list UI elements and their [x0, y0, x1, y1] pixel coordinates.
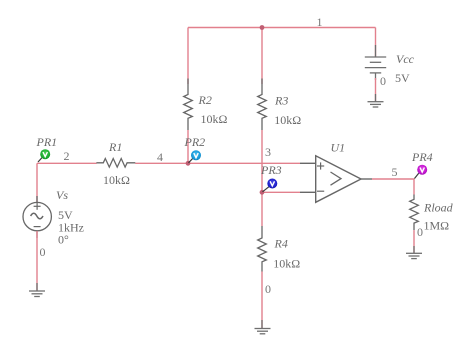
wire net 3 vertical: [261, 130, 263, 226]
svg-text:5V: 5V: [395, 71, 410, 85]
junction node 1 / R3: [260, 25, 265, 30]
op-amp gain chevron: [331, 172, 342, 185]
ground (under Rload): [406, 246, 422, 259]
ground (under R4): [255, 320, 271, 334]
dc source Vcc battery: [365, 45, 386, 80]
svg-text:Rload: Rload: [423, 201, 454, 215]
wire R2 branch lower: [187, 130, 189, 163]
op-amp plus marker: [317, 162, 324, 169]
svg-text:5: 5: [392, 165, 398, 179]
probe PR3: [263, 179, 278, 192]
svg-text:PR2: PR2: [184, 135, 206, 149]
resistor R1: [96, 159, 135, 168]
svg-text:PR1: PR1: [36, 135, 58, 149]
svg-text:10kΩ: 10kΩ: [103, 173, 130, 187]
junction R2 / net 4: [186, 161, 191, 166]
svg-text:Vs: Vs: [56, 188, 68, 202]
svg-text:U1: U1: [331, 141, 346, 155]
resistor R4: [258, 226, 267, 272]
svg-text:R3: R3: [274, 93, 288, 107]
wire R2 branch upper: [187, 28, 189, 85]
svg-text:0: 0: [40, 245, 46, 259]
svg-text:1MΩ: 1MΩ: [424, 219, 450, 233]
resistor R2: [184, 79, 193, 131]
wire top rail node 1: [188, 27, 376, 29]
svg-text:3: 3: [265, 145, 271, 159]
wire source branch upper: [36, 163, 38, 203]
probe PR2: [189, 150, 202, 163]
svg-text:Vcc: Vcc: [396, 52, 415, 66]
ground (under Vs): [29, 283, 45, 297]
svg-text:10kΩ: 10kΩ: [274, 113, 301, 127]
svg-text:2: 2: [64, 149, 70, 163]
svg-text:PR3: PR3: [260, 163, 282, 177]
wire main horizontal net 4 right: [135, 162, 300, 164]
resistor Rload: [410, 195, 419, 231]
wire Vcc branch: [375, 28, 377, 58]
svg-text:10kΩ: 10kΩ: [201, 112, 228, 126]
op-amp U1: [300, 156, 372, 203]
svg-text:10kΩ: 10kΩ: [273, 257, 300, 271]
svg-text:4: 4: [157, 150, 163, 164]
svg-text:1: 1: [317, 15, 323, 29]
svg-text:0: 0: [265, 282, 271, 296]
wire op-amp minus branch: [262, 191, 300, 193]
ground (under Vcc): [368, 94, 384, 107]
svg-text:0: 0: [417, 225, 423, 239]
wire R3 branch upper: [261, 28, 263, 85]
probe PR1: [38, 149, 50, 162]
svg-text:0: 0: [380, 74, 386, 88]
wire main horizontal net 4 left: [37, 162, 97, 164]
wire Vcc to ground: [375, 78, 377, 102]
op-amp minus marker: [317, 190, 324, 192]
wire output net 5: [372, 179, 414, 195]
wire source to ground: [36, 231, 38, 291]
wire Rload to ground: [413, 230, 415, 253]
svg-text:0°: 0°: [58, 233, 69, 247]
junction PR3 node: [260, 190, 265, 195]
resistor R3: [258, 79, 267, 131]
svg-text:PR4: PR4: [411, 150, 433, 164]
svg-text:R4: R4: [274, 236, 288, 250]
svg-text:R2: R2: [198, 93, 212, 107]
probe PR4: [415, 165, 428, 179]
svg-text:R1: R1: [108, 140, 122, 154]
wire R4 to ground: [261, 272, 263, 329]
ac source Vs: [23, 196, 51, 238]
